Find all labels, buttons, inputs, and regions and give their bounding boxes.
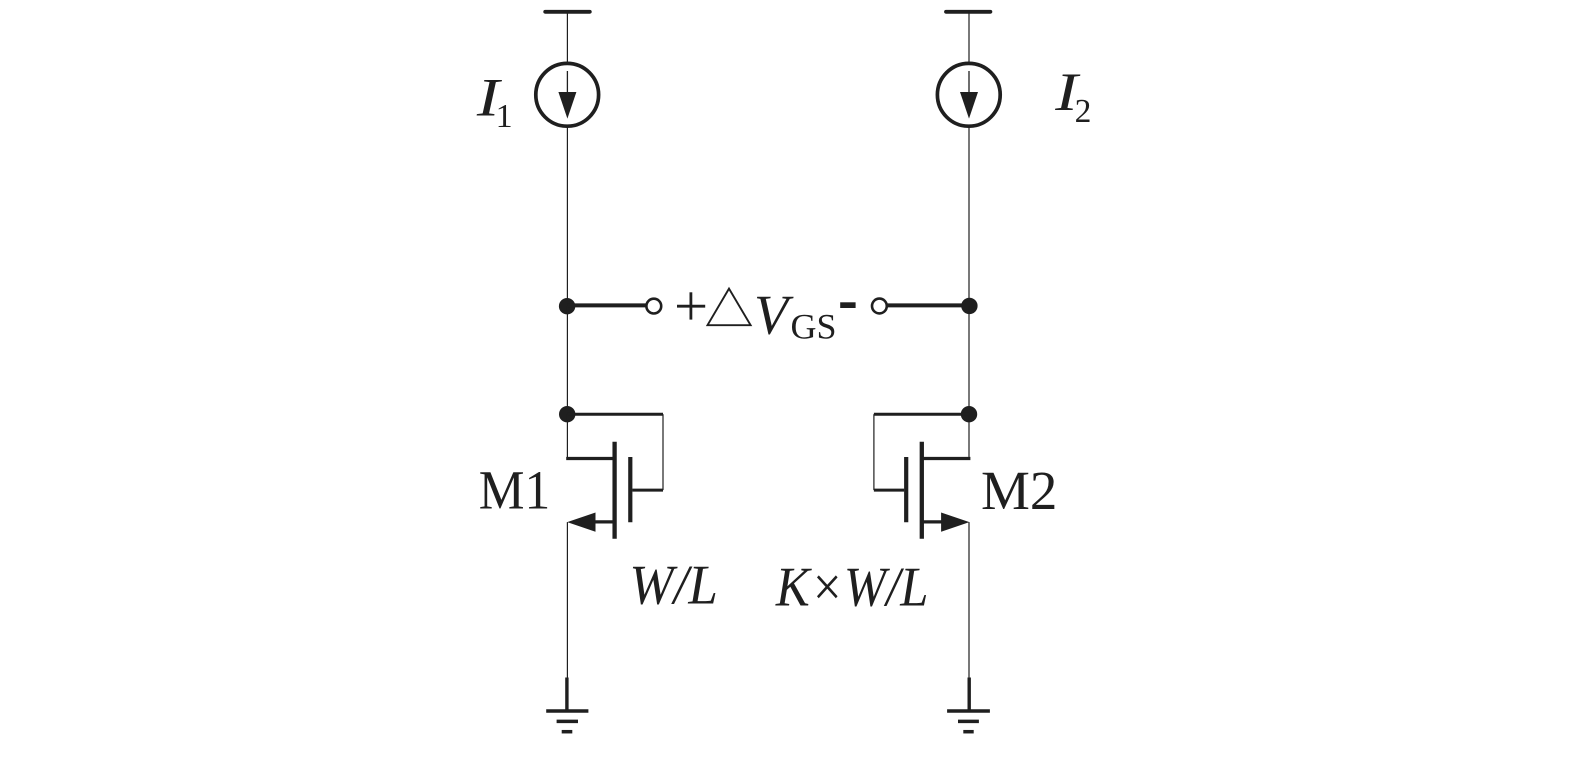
label I1 xyxy=(476,67,513,136)
M1 channel bar xyxy=(612,442,616,539)
ground right bar 1 xyxy=(947,709,990,713)
current source I1 arrow shaft xyxy=(566,71,568,93)
current source I2 arrowhead xyxy=(960,92,978,119)
wire right probe to node B xyxy=(887,303,970,307)
svg-text:GS: GS xyxy=(791,307,837,347)
plus sign xyxy=(677,292,705,319)
label W/L xyxy=(629,555,718,617)
supply rail bar right xyxy=(946,10,990,14)
M2 drain lead xyxy=(922,457,971,460)
wire I1 to node A xyxy=(566,126,568,306)
current source I2 circle xyxy=(937,63,1000,126)
svg-text:M2: M2 xyxy=(981,460,1057,521)
current source I1 circle xyxy=(536,63,599,126)
M1 source lead xyxy=(593,520,615,523)
node B junction dot xyxy=(961,298,977,314)
wire supply to I2 xyxy=(968,12,970,64)
wire node A to M1 drain node xyxy=(566,306,568,414)
M1 source arrowhead xyxy=(567,513,595,532)
M1 gate feedback wire top xyxy=(567,413,663,416)
ground right bar 2 xyxy=(958,720,979,724)
ground right stub xyxy=(968,678,971,711)
wire supply to I1 xyxy=(566,12,568,64)
label M1 xyxy=(479,460,551,521)
current source I1 arrowhead xyxy=(558,92,576,119)
ground left stub xyxy=(565,678,568,711)
M1 drain lead xyxy=(566,457,614,460)
ground left bar 3 xyxy=(562,730,573,734)
M2 gate bar xyxy=(904,457,908,522)
M2 gate lead xyxy=(874,489,904,492)
wire I2 to node B xyxy=(968,126,970,306)
delta triangle xyxy=(708,289,751,326)
label V GS xyxy=(754,285,837,347)
svg-text:W/L: W/L xyxy=(629,555,718,617)
left probe open terminal xyxy=(646,299,661,314)
right probe open terminal xyxy=(872,299,887,314)
wire node dot to M1 drain lead xyxy=(566,414,568,458)
ground left bar 1 xyxy=(546,709,588,713)
wire M2 source to ground xyxy=(968,522,970,678)
node A junction dot xyxy=(559,298,575,314)
ground right bar 3 xyxy=(963,730,973,734)
minus sign xyxy=(840,302,855,308)
current source I2 arrow shaft xyxy=(968,71,970,93)
svg-text:V: V xyxy=(754,285,794,347)
M1 gate lead xyxy=(632,489,663,492)
label K x W/L xyxy=(775,557,928,619)
M1 gate bar xyxy=(628,457,632,522)
M1 gate feedback wire right xyxy=(662,414,664,490)
svg-text:K×W/L: K×W/L xyxy=(775,557,928,619)
M1 drain-gate node dot xyxy=(559,406,575,422)
svg-text:1: 1 xyxy=(496,98,513,135)
M2 drain-gate node dot xyxy=(961,406,977,422)
M2 source arrowhead xyxy=(941,513,969,532)
M2 gate feedback wire top xyxy=(874,413,969,416)
wire node dot to M2 drain lead xyxy=(968,414,970,458)
M2 channel bar xyxy=(920,442,924,539)
svg-text:2: 2 xyxy=(1075,93,1092,130)
wire node B to M2 drain node xyxy=(968,306,970,414)
label M2 xyxy=(981,460,1057,521)
supply rail bar left xyxy=(545,10,590,14)
wire M1 source to ground xyxy=(566,522,568,678)
svg-text:M1: M1 xyxy=(479,460,551,521)
label I2 xyxy=(1054,61,1091,130)
wire node A to left probe xyxy=(567,303,646,307)
M2 source lead xyxy=(922,520,944,523)
M2 gate feedback wire left xyxy=(873,414,875,490)
ground left bar 2 xyxy=(557,720,578,724)
